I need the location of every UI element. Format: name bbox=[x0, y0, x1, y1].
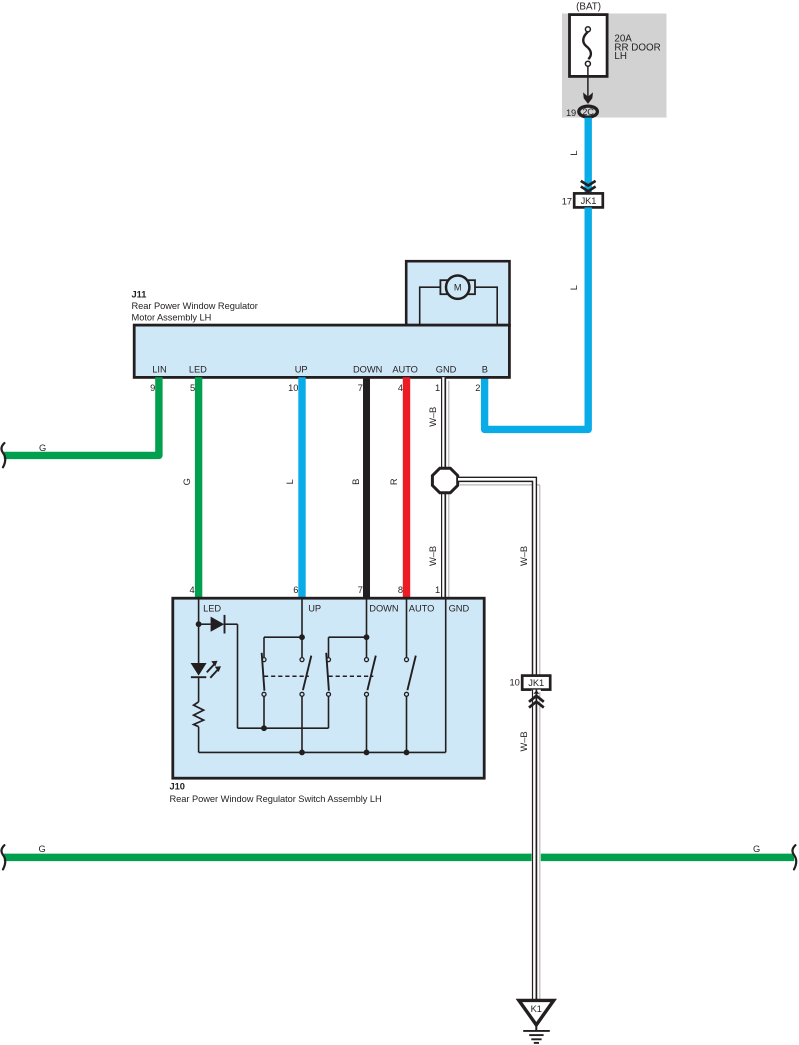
svg-text:LED: LED bbox=[189, 364, 207, 374]
svg-text:10: 10 bbox=[288, 383, 298, 393]
svg-text:L: L bbox=[569, 285, 579, 290]
motor M1 bbox=[446, 276, 469, 299]
LED light arrows bbox=[207, 665, 214, 673]
fuse area gray background bbox=[562, 14, 667, 118]
svg-text:AUTO: AUTO bbox=[392, 364, 417, 374]
svg-text:L: L bbox=[569, 150, 579, 155]
connector arrows out of JK1 (10) bbox=[533, 691, 539, 694]
wire mid bus bbox=[238, 727, 329, 729]
svg-text:AUTO: AUTO bbox=[409, 603, 434, 613]
wire L (fuse feed, blue) bbox=[585, 118, 592, 194]
wire W-B branch from splice to JK1 (10) bbox=[458, 477, 540, 676]
svg-text:L: L bbox=[285, 479, 295, 484]
svg-text:(BAT): (BAT) bbox=[576, 2, 601, 13]
ground splice node octagon bbox=[432, 468, 457, 493]
motor brushes bbox=[440, 280, 447, 294]
wire break squiggle left bbox=[1, 443, 5, 467]
svg-text:JK1: JK1 bbox=[581, 196, 597, 206]
wire W-B from pin 1 GND down to switch bbox=[442, 377, 449, 598]
wire break squiggle right bbox=[792, 845, 796, 869]
switch SW-AUTO bbox=[405, 658, 409, 662]
arrow into 2C bbox=[583, 92, 593, 104]
svg-text:K1: K1 bbox=[531, 1004, 542, 1014]
wire G from pin 9 LIN to left (green) bbox=[4, 377, 159, 455]
wire G from pin 5 LED to switch (green) bbox=[195, 377, 202, 598]
diode D1 bbox=[211, 617, 225, 632]
switch SW-DOWN bbox=[364, 634, 370, 640]
svg-text:GND: GND bbox=[449, 603, 470, 613]
resistor R1 bbox=[194, 702, 204, 727]
wire resistor to bus bbox=[198, 727, 200, 753]
svg-text:7: 7 bbox=[358, 585, 363, 595]
connector arrows into JK1 bbox=[581, 181, 596, 186]
svg-text:7: 7 bbox=[358, 383, 363, 393]
svg-text:G: G bbox=[182, 478, 192, 485]
motor housing box bbox=[406, 261, 509, 325]
LED D2 bbox=[191, 663, 207, 676]
wire R from pin 4 AUTO to switch (red) bbox=[403, 377, 410, 598]
svg-text:GND: GND bbox=[436, 364, 457, 374]
svg-text:R: R bbox=[389, 478, 399, 485]
svg-text:1: 1 bbox=[435, 585, 440, 595]
wire GND up bbox=[445, 598, 447, 752]
svg-text:19: 19 bbox=[566, 108, 576, 118]
svg-text:W–B: W–B bbox=[519, 732, 529, 752]
svg-text:9: 9 bbox=[150, 383, 155, 393]
switch SW-UP bbox=[299, 634, 305, 640]
svg-text:Rear Power Window Regulator: Rear Power Window Regulator bbox=[132, 301, 258, 311]
svg-text:J11: J11 bbox=[132, 290, 147, 300]
wire pin7 to DOWN switch bbox=[366, 598, 368, 637]
wire break squiggle left bbox=[1, 845, 5, 869]
svg-text:M: M bbox=[454, 283, 462, 293]
svg-text:W–B: W–B bbox=[519, 546, 529, 566]
svg-text:2C: 2C bbox=[582, 107, 594, 117]
wire corner down bbox=[237, 624, 239, 728]
svg-text:1: 1 bbox=[435, 383, 440, 393]
wire W-B from JK1 (10) to ground K1 (crosses green bus) bbox=[533, 690, 540, 1000]
svg-text:2: 2 bbox=[475, 383, 480, 393]
svg-text:6: 6 bbox=[293, 585, 298, 595]
ground hatching bbox=[523, 1030, 550, 1032]
green ground bus G bbox=[4, 854, 794, 862]
wire fuse to connector 2C bbox=[587, 66, 589, 97]
fuse element bbox=[583, 32, 591, 59]
svg-text:4: 4 bbox=[398, 383, 403, 393]
svg-text:LED: LED bbox=[203, 603, 221, 613]
connector 2C oval bbox=[579, 106, 598, 117]
svg-text:5: 5 bbox=[190, 383, 195, 393]
svg-text:B: B bbox=[482, 364, 488, 374]
wire pin8 to AUTO switch bbox=[406, 598, 408, 657]
svg-text:Motor Assembly LH: Motor Assembly LH bbox=[132, 313, 212, 323]
svg-text:G: G bbox=[39, 443, 46, 453]
svg-text:10: 10 bbox=[510, 678, 520, 688]
svg-text:DOWN: DOWN bbox=[353, 364, 382, 374]
junction dot pin4/diode bbox=[196, 621, 202, 627]
svg-text:4: 4 bbox=[189, 585, 194, 595]
svg-text:LH: LH bbox=[614, 51, 627, 62]
wire B from pin 7 DOWN to switch (black) bbox=[363, 377, 370, 598]
switch box J10 bbox=[173, 598, 484, 778]
wire pin4 to diode bbox=[198, 598, 200, 624]
wire bottom bus bbox=[199, 751, 446, 753]
svg-text:B: B bbox=[351, 479, 361, 485]
svg-text:Rear Power Window Regulator Sw: Rear Power Window Regulator Switch Assem… bbox=[170, 794, 382, 804]
ground point K1 bbox=[519, 1000, 554, 1025]
wire pin6 to UP switch bbox=[301, 598, 303, 637]
svg-text:LIN: LIN bbox=[152, 364, 166, 374]
svg-text:W–B: W–B bbox=[428, 546, 438, 566]
svg-text:J10: J10 bbox=[170, 782, 185, 792]
svg-text:W–B: W–B bbox=[428, 407, 438, 427]
connector box J11 bbox=[134, 325, 509, 377]
junction connector JK1 (10) bbox=[522, 676, 550, 690]
wire L from JK1 to motor pin B (blue) bbox=[485, 207, 589, 429]
svg-text:UP: UP bbox=[308, 603, 321, 613]
svg-text:JK1: JK1 bbox=[528, 678, 544, 688]
wire pin4 down to LED bbox=[198, 624, 200, 663]
svg-text:G: G bbox=[753, 844, 760, 854]
svg-text:G: G bbox=[39, 844, 46, 854]
motor wires bbox=[420, 287, 441, 324]
junction connector JK1 (17) bbox=[574, 193, 603, 207]
svg-text:DOWN: DOWN bbox=[369, 603, 398, 613]
svg-text:17: 17 bbox=[562, 196, 572, 206]
wire LED to resistor bbox=[198, 677, 200, 702]
wire L from pin 10 UP to switch (blue) bbox=[298, 377, 305, 598]
fuse F1 box bbox=[570, 15, 608, 77]
wire diode to corner bbox=[199, 623, 211, 625]
svg-text:8: 8 bbox=[398, 585, 403, 595]
svg-text:UP: UP bbox=[295, 364, 308, 374]
